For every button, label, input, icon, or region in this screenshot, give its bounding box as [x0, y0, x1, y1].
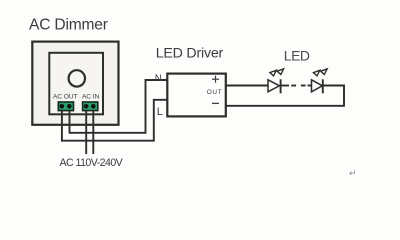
- svg-text:N: N: [155, 73, 162, 84]
- svg-text:AC Dimmer: AC Dimmer: [29, 17, 108, 34]
- svg-text:L: L: [157, 106, 163, 118]
- AC dimmer outer box: [32, 42, 118, 125]
- terminal block AC IN: [83, 102, 98, 111]
- terminal block AC OUT: [58, 102, 73, 111]
- svg-text:LED: LED: [284, 47, 310, 63]
- wire: driver + output to LED D1 anode: [226, 85, 268, 87]
- svg-text:AC IN: AC IN: [82, 94, 100, 101]
- dimmer knob circle: [69, 70, 85, 86]
- svg-text:OUT: OUT: [207, 89, 223, 96]
- svg-text:LED Driver: LED Driver: [156, 46, 224, 62]
- LED driver box U1: [167, 74, 226, 117]
- svg-text:AC 110V-240V: AC 110V-240V: [60, 157, 124, 169]
- wire: AC IN right screw to mains: [92, 110, 94, 154]
- wire: dashed link between D1 and D2: [281, 85, 312, 87]
- wire: AC IN left screw to mains: [85, 110, 87, 154]
- wire: AC OUT left screw to LED driver L input: [62, 100, 167, 141]
- svg-text:↵: ↵: [349, 168, 357, 178]
- minus sign on driver: [212, 102, 219, 104]
- plus sign on driver: [212, 76, 219, 83]
- svg-text:AC OUT: AC OUT: [53, 94, 78, 101]
- LED D1: [268, 69, 284, 93]
- LED D2: [312, 69, 328, 93]
- wire: LED return loop to driver - output: [226, 86, 344, 106]
- AC dimmer inner box: [49, 53, 103, 115]
- wire: AC OUT right screw to LED driver N input: [70, 80, 167, 133]
